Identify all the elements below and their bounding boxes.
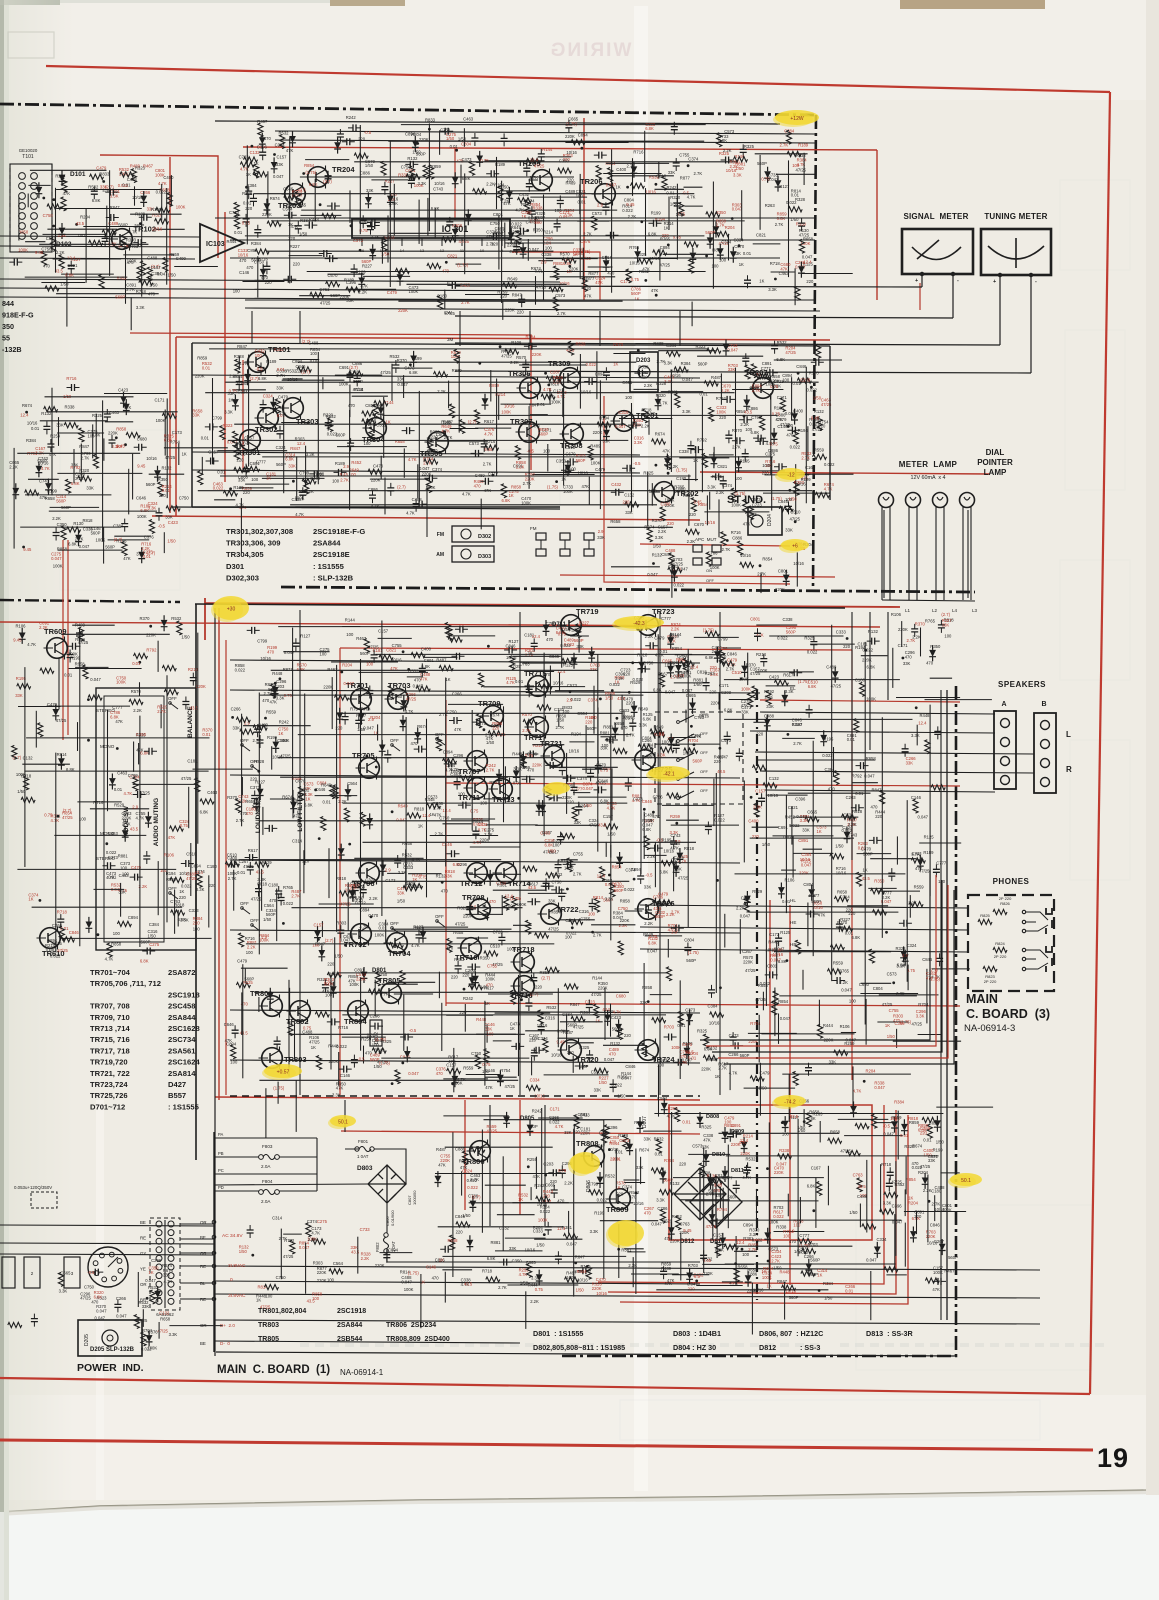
svg-text:47K: 47K: [651, 288, 659, 293]
svg-text:220K: 220K: [593, 430, 603, 435]
wire: [94, 888, 125, 890]
junction: [631, 661, 634, 664]
transistor TR710: [455, 937, 481, 963]
svg-text:47K: 47K: [485, 1085, 493, 1090]
wire: [463, 128, 465, 147]
svg-text:0.047: 0.047: [615, 424, 626, 429]
svg-text:9.45: 9.45: [714, 1182, 723, 1187]
svg-text:2.2K: 2.2K: [486, 181, 495, 186]
junction: [544, 372, 547, 375]
transformer T801: [150, 1218, 180, 1310]
svg-text:C894: C894: [660, 245, 671, 250]
wire: [663, 253, 713, 255]
svg-text:10/16: 10/16: [366, 418, 377, 423]
resistor: [685, 529, 699, 534]
svg-text:9.45: 9.45: [694, 500, 703, 505]
wire: [417, 464, 419, 498]
svg-text:C804: C804: [873, 986, 884, 991]
svg-text:47K: 47K: [642, 267, 650, 272]
resistor: [131, 169, 136, 183]
svg-text:0.047: 0.047: [51, 556, 62, 561]
capacitor: [327, 203, 340, 210]
wire: [704, 511, 769, 513]
svg-text:D204: D204: [767, 514, 773, 526]
svg-text:1/50: 1/50: [887, 1034, 896, 1039]
svg-text:C400: C400: [616, 167, 627, 172]
resistor: [702, 453, 707, 467]
svg-text:1/50: 1/50: [239, 1249, 248, 1254]
svg-text:0.01: 0.01: [655, 1152, 664, 1157]
capacitor: [43, 421, 50, 434]
wire: [577, 220, 609, 222]
svg-text:(2.7): (2.7): [250, 376, 259, 381]
svg-text:0.047: 0.047: [79, 544, 90, 549]
svg-text:R242: R242: [667, 185, 678, 190]
capacitor: [247, 627, 260, 634]
svg-text:C691: C691: [339, 365, 350, 370]
svg-text:220: 220: [875, 814, 883, 819]
junction: [591, 931, 594, 934]
svg-text:TR709, 710: TR709, 710: [90, 1013, 130, 1022]
svg-text:C157: C157: [208, 450, 219, 455]
transistor TR808: [576, 1139, 604, 1168]
svg-text:A: A: [1001, 701, 1006, 708]
svg-text:R328: R328: [234, 354, 245, 359]
transistor TR706: [352, 862, 379, 889]
junction: [652, 562, 655, 565]
capacitor: [454, 777, 461, 790]
resistor: [541, 394, 555, 399]
wire red footer rule: [0, 1440, 1093, 1450]
svg-text:47K: 47K: [652, 814, 660, 819]
wire: [296, 456, 298, 501]
wire: [684, 186, 703, 188]
svg-text:6.8K: 6.8K: [645, 126, 654, 131]
wire: [753, 243, 781, 245]
svg-text:33K: 33K: [445, 873, 453, 878]
svg-text:C157: C157: [713, 1232, 724, 1237]
svg-text:3I.8VAC: 3I.8VAC: [228, 1263, 246, 1269]
svg-text:33K: 33K: [351, 1245, 359, 1250]
svg-text:47/25: 47/25: [455, 922, 466, 927]
svg-text:R448: R448: [920, 713, 931, 718]
svg-text:C350: C350: [559, 158, 570, 163]
resistor: [162, 666, 176, 671]
svg-text:R125: R125: [780, 930, 791, 935]
svg-text:2.7K: 2.7K: [444, 435, 453, 440]
svg-text:0.75: 0.75: [470, 808, 479, 813]
svg-text:0.01/900: 0.01/900: [390, 1210, 395, 1226]
svg-text:10/16: 10/16: [793, 561, 804, 566]
resistor: [558, 168, 572, 173]
svg-text:12.4: 12.4: [20, 413, 29, 418]
svg-text:55: 55: [2, 334, 10, 343]
resistor: [255, 862, 269, 867]
capacitor: [259, 147, 266, 160]
svg-text:C173: C173: [385, 878, 396, 883]
svg-text:C180: C180: [268, 882, 279, 887]
svg-text:2.2K: 2.2K: [39, 625, 48, 630]
svg-text:C334: C334: [530, 1077, 541, 1082]
svg-text:1K: 1K: [595, 1019, 600, 1024]
junction: [491, 474, 494, 477]
resistor: [469, 161, 474, 175]
svg-text:47/25: 47/25: [745, 968, 756, 973]
svg-text:47K: 47K: [39, 495, 47, 500]
svg-text:R263: R263: [705, 671, 716, 676]
svg-text:R532: R532: [605, 1174, 616, 1179]
svg-text:33K: 33K: [903, 661, 911, 666]
svg-text:D- 0: D- 0: [220, 1341, 230, 1346]
wire right v2: [940, 690, 942, 1320]
diode: [565, 460, 572, 476]
svg-text:R818: R818: [414, 807, 425, 812]
svg-text:3.3K: 3.3K: [707, 485, 716, 490]
svg-text:220K: 220K: [525, 476, 535, 481]
svg-text:220: 220: [616, 1191, 624, 1196]
svg-text:D812: D812: [680, 1239, 695, 1245]
resistor: [258, 123, 263, 137]
svg-text:D813 : SS-3R: D813 : SS-3R: [866, 1329, 914, 1338]
wire: [469, 873, 521, 875]
svg-text:4.7K: 4.7K: [295, 512, 304, 517]
wire pwr h3: [214, 1294, 1040, 1298]
svg-text:TR803: TR803: [284, 1055, 307, 1064]
svg-text:C132: C132: [23, 756, 34, 761]
svg-text:1K: 1K: [254, 161, 259, 166]
svg-text:100K: 100K: [116, 680, 126, 685]
junction: [282, 922, 285, 925]
svg-text:C374: C374: [538, 1036, 549, 1041]
capacitor: [277, 426, 284, 439]
resistor: [373, 404, 378, 418]
resistor: [596, 165, 601, 179]
svg-text:1/50: 1/50: [813, 396, 822, 401]
junction: [743, 415, 746, 418]
resistor: [117, 921, 131, 926]
svg-text:47/25: 47/25: [283, 1254, 294, 1259]
svg-text:560P: 560P: [789, 1295, 799, 1300]
svg-text:1K: 1K: [311, 1045, 316, 1050]
resistor: [360, 812, 365, 826]
diode: [520, 243, 527, 259]
svg-text:C432: C432: [611, 482, 622, 487]
svg-text:43.5: 43.5: [653, 906, 662, 911]
svg-text:C479: C479: [96, 166, 107, 171]
svg-text:1K: 1K: [739, 262, 744, 267]
svg-text:C846: C846: [661, 552, 672, 557]
diode D810: [703, 1150, 710, 1166]
resistor: [569, 919, 583, 924]
wire: [601, 736, 617, 738]
resistor: [797, 378, 811, 383]
svg-text:C894: C894: [388, 1248, 399, 1253]
wire: [795, 464, 797, 514]
wire chain left stub: [0, 600, 180, 602]
junction: [314, 789, 317, 792]
diode: [290, 797, 297, 813]
svg-text:C423: C423: [168, 520, 179, 525]
svg-text:C384: C384: [238, 390, 249, 395]
svg-text:0.01: 0.01: [202, 732, 211, 737]
bridge rectifier D803: [368, 1165, 406, 1203]
capacitor: [740, 144, 747, 157]
svg-text:43.5: 43.5: [598, 822, 607, 827]
svg-text:1/50: 1/50: [365, 163, 374, 168]
svg-text:2.7K: 2.7K: [732, 445, 741, 450]
svg-text:47K: 47K: [168, 835, 176, 840]
capacitor: [558, 888, 565, 901]
svg-text:4.7K: 4.7K: [408, 457, 417, 462]
svg-text:2.2K: 2.2K: [740, 422, 749, 427]
svg-text:C373: C373: [685, 1007, 696, 1012]
capacitor: [637, 666, 650, 673]
svg-text:R125: R125: [924, 834, 935, 839]
capacitor: [245, 186, 252, 199]
resistor: [170, 877, 184, 882]
svg-text:6.8K: 6.8K: [309, 182, 318, 187]
wire amp h4: [230, 860, 740, 863]
svg-text:47K: 47K: [123, 556, 131, 561]
svg-text:100K: 100K: [485, 977, 495, 982]
resistor: [684, 242, 698, 247]
capacitor: [602, 202, 609, 215]
svg-text:33K: 33K: [597, 535, 605, 540]
junction: [611, 689, 614, 692]
diode: [120, 392, 127, 408]
capacitor: [299, 487, 306, 500]
svg-text:R674: R674: [22, 403, 33, 408]
svg-text:10/16: 10/16: [566, 150, 577, 155]
svg-text:220: 220: [689, 512, 697, 517]
svg-text:100K: 100K: [295, 496, 305, 501]
wire: [448, 635, 495, 637]
wire: [430, 835, 498, 837]
resistor: [409, 166, 414, 180]
resistor: [239, 933, 244, 947]
svg-text:TR725,726: TR725,726: [90, 1091, 128, 1100]
wire: [803, 473, 853, 475]
svg-text:R532: R532: [171, 616, 182, 621]
svg-text:2.2K: 2.2K: [52, 516, 61, 521]
diode D801: [361, 967, 368, 983]
wire red tuner top: [243, 147, 877, 150]
resistor: [129, 699, 143, 704]
diode D811: [722, 1166, 729, 1182]
svg-text:33K: 33K: [564, 1130, 572, 1135]
svg-text:100: 100: [233, 289, 241, 294]
wire: [378, 637, 412, 639]
capacitor: [538, 149, 545, 162]
junction: [581, 147, 584, 150]
capacitor: [522, 776, 535, 783]
svg-text:D427: D427: [168, 1080, 186, 1089]
svg-text:C132: C132: [769, 776, 780, 781]
resistor: [25, 490, 39, 495]
svg-text:10/16: 10/16: [238, 252, 249, 257]
junction: [365, 755, 368, 758]
diode: [717, 244, 724, 260]
svg-text:9.45: 9.45: [137, 464, 146, 469]
svg-text:R106: R106: [164, 853, 175, 858]
wire: [95, 414, 97, 460]
svg-text:43.5: 43.5: [307, 1298, 316, 1303]
wire bridge out: [387, 1203, 700, 1262]
wire grid: [209, 348, 708, 350]
svg-text:1K: 1K: [256, 1298, 261, 1303]
resistor: [794, 481, 799, 495]
wire: [233, 870, 235, 911]
svg-text:220K: 220K: [775, 587, 785, 592]
junction: [667, 244, 670, 247]
capacitor: [387, 483, 394, 496]
wire: [155, 228, 184, 230]
svg-text:220: 220: [843, 644, 851, 649]
wire: [647, 472, 649, 527]
diode: [365, 192, 372, 208]
svg-text:C846: C846: [69, 930, 80, 935]
svg-text:L4: L4: [952, 608, 958, 613]
transistor TR703: [385, 681, 411, 711]
svg-text:2.7K: 2.7K: [780, 143, 789, 148]
svg-text:12.4: 12.4: [195, 870, 204, 875]
wire: [765, 474, 810, 476]
svg-text:1/50: 1/50: [923, 1153, 932, 1158]
svg-text:4.7K: 4.7K: [311, 1231, 320, 1236]
svg-text:C479: C479: [760, 1070, 771, 1075]
svg-text:R854: R854: [672, 646, 683, 651]
svg-text:2SA814: 2SA814: [168, 1069, 196, 1078]
svg-text:4.7K: 4.7K: [824, 487, 833, 492]
resistor: [553, 297, 558, 311]
svg-text:C146: C146: [911, 795, 922, 800]
wire: [549, 388, 551, 403]
svg-text:220: 220: [179, 895, 187, 900]
transistor TR715: [524, 669, 548, 698]
svg-text:R718: R718: [881, 1162, 892, 1167]
svg-text:R325: R325: [92, 413, 103, 418]
wire chain main board right: [560, 686, 956, 1356]
svg-text:TR713 ,714: TR713 ,714: [90, 1024, 130, 1033]
wire bus t1: [215, 121, 780, 124]
wire: [709, 454, 734, 456]
svg-text:100: 100: [310, 351, 318, 356]
svg-text:D801 : 1S1555: D801 : 1S1555: [533, 1329, 583, 1338]
wire: [648, 420, 650, 435]
svg-text:C743: C743: [433, 187, 444, 192]
wire: [465, 294, 509, 296]
capacitor: [334, 469, 347, 476]
resistor: [141, 261, 146, 275]
svg-text:0.01: 0.01: [202, 366, 211, 371]
wire pwr bot1: [216, 1352, 955, 1356]
svg-text:470: 470: [546, 637, 554, 642]
meter M2 terminals: [998, 273, 1001, 276]
resistor: [516, 231, 521, 245]
wire amp h1: [230, 660, 700, 663]
svg-text:4.7K: 4.7K: [51, 818, 60, 823]
svg-text:43.5: 43.5: [351, 1250, 360, 1255]
svg-text:GY: GY: [140, 1251, 146, 1256]
svg-text:R204: R204: [80, 215, 91, 220]
svg-text:C275: C275: [149, 942, 160, 947]
wire: [535, 824, 598, 826]
svg-text:R718: R718: [482, 1269, 493, 1274]
svg-text:2.2K: 2.2K: [671, 626, 680, 631]
svg-text:4.7K: 4.7K: [158, 181, 167, 186]
wire if bot1: [192, 470, 640, 473]
capacitor: [787, 427, 800, 434]
wire speakers h2: [750, 731, 995, 733]
svg-text:0.022: 0.022: [674, 582, 685, 587]
svg-text:3.3K: 3.3K: [682, 409, 691, 414]
wire: [697, 355, 763, 357]
wire: [193, 768, 253, 770]
resistor: [505, 349, 519, 354]
capacitor: [348, 124, 361, 131]
node control block outline: [96, 688, 196, 950]
wire: [427, 198, 429, 236]
capacitor: [622, 465, 635, 472]
junction: [409, 363, 412, 366]
wire pwr vert214: [213, 1132, 215, 1352]
svg-text:AC 34.8V: AC 34.8V: [222, 1233, 243, 1239]
svg-text:2.7K: 2.7K: [593, 933, 602, 938]
transistor TR724: [635, 1039, 676, 1065]
wire: [349, 288, 397, 290]
diode: [412, 136, 419, 152]
svg-text:C804: C804: [803, 882, 814, 887]
svg-text:2.7K: 2.7K: [793, 741, 802, 746]
resistor: [195, 778, 200, 792]
wire phones h1: [640, 905, 968, 908]
svg-text:(2.7): (2.7): [397, 485, 406, 490]
svg-text:-0.5: -0.5: [255, 367, 263, 372]
capacitor: [103, 862, 116, 869]
svg-text:OFF: OFF: [700, 788, 709, 793]
lamp L4: [960, 493, 975, 508]
svg-text:6.8K: 6.8K: [807, 1183, 816, 1188]
wire: [174, 890, 176, 934]
svg-text:47/25: 47/25: [548, 927, 559, 932]
svg-text:47/25: 47/25: [891, 1180, 902, 1185]
svg-text:2.7K: 2.7K: [694, 171, 703, 176]
wire: [27, 194, 29, 208]
svg-text:AM: AM: [436, 552, 444, 558]
svg-text:R381: R381: [621, 1248, 632, 1253]
diode: [400, 715, 407, 731]
svg-text:6.8K: 6.8K: [94, 1294, 103, 1299]
svg-text:4.7K: 4.7K: [484, 431, 493, 436]
resistor: [644, 836, 649, 850]
svg-text:2.2K: 2.2K: [361, 1256, 370, 1261]
wire: [695, 446, 697, 481]
svg-text:12.4: 12.4: [736, 1240, 745, 1245]
wire: [301, 507, 338, 509]
wire: [370, 478, 428, 480]
wire bus t10: [245, 308, 820, 311]
resistor: [592, 216, 597, 230]
svg-text:47/25: 47/25: [340, 901, 351, 906]
svg-text:C646: C646: [283, 186, 294, 191]
svg-text:1/50: 1/50: [607, 832, 616, 837]
wire: [706, 495, 708, 525]
diode: [771, 428, 778, 444]
svg-text:(1.75): (1.75): [457, 263, 469, 268]
diode: [334, 138, 341, 154]
svg-text:R350: R350: [533, 228, 544, 233]
svg-text:C821: C821: [756, 233, 767, 238]
